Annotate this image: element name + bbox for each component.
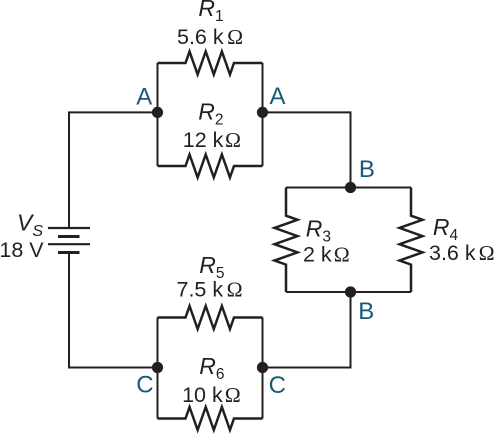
resistor R6 bbox=[158, 407, 263, 430]
svg-text:B: B bbox=[359, 156, 375, 183]
node A right junction dot bbox=[257, 107, 268, 118]
svg-text:5.6 kΩ: 5.6 kΩ bbox=[177, 25, 243, 49]
resistor R5 bbox=[158, 306, 263, 329]
wire right box bottom bbox=[286, 291, 411, 293]
svg-text:2 kΩ: 2 kΩ bbox=[303, 243, 350, 267]
wire node A (right) to node B (top) bbox=[263, 112, 351, 187]
node B top junction dot bbox=[345, 182, 356, 193]
node C left junction dot bbox=[152, 362, 163, 373]
wire bottom box right vertical bbox=[262, 318, 264, 419]
svg-text:B: B bbox=[358, 298, 374, 325]
battery VS plates bbox=[48, 228, 90, 253]
node A left junction dot bbox=[152, 107, 163, 118]
node B bottom junction dot bbox=[345, 286, 356, 297]
wire bottom box left vertical bbox=[157, 318, 159, 419]
wire battery negative to node C (left) bbox=[69, 253, 159, 368]
svg-text:A: A bbox=[270, 83, 286, 110]
resistor R1 bbox=[158, 52, 263, 75]
wire right box top bbox=[286, 187, 411, 189]
svg-text:3.6 kΩ: 3.6 kΩ bbox=[429, 241, 495, 265]
wire top box right vertical bbox=[262, 63, 264, 166]
svg-text:C: C bbox=[136, 371, 153, 398]
wire top box left vertical bbox=[157, 63, 159, 166]
resistor R3 bbox=[275, 188, 298, 293]
svg-text:18 V: 18 V bbox=[0, 238, 44, 262]
svg-text:7.5 kΩ: 7.5 kΩ bbox=[177, 277, 243, 301]
svg-text:10 kΩ: 10 kΩ bbox=[182, 383, 241, 407]
resistor R2 bbox=[158, 155, 263, 178]
node C right junction dot bbox=[257, 362, 268, 373]
svg-text:12 kΩ: 12 kΩ bbox=[183, 128, 241, 152]
svg-text:C: C bbox=[269, 372, 286, 399]
resistor R4 bbox=[400, 188, 423, 293]
wire battery positive to node A (left) bbox=[69, 112, 159, 228]
wire node B (bottom) to node C (right) bbox=[263, 292, 351, 368]
svg-text:A: A bbox=[136, 83, 152, 110]
